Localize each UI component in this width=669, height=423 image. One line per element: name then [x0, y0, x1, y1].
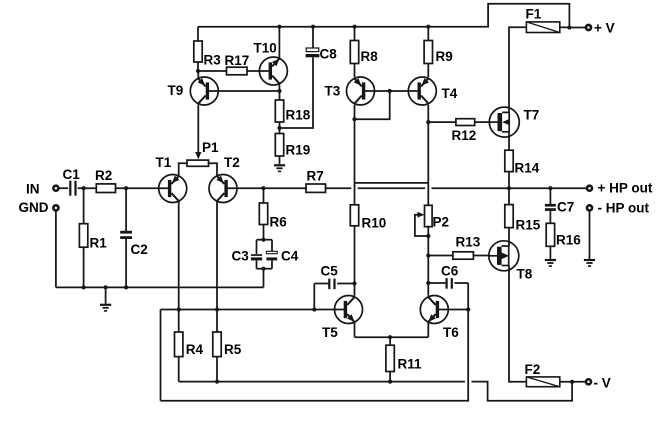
svg-text:GND: GND	[19, 200, 49, 215]
svg-text:R8: R8	[361, 49, 379, 64]
svg-text:R5: R5	[224, 342, 242, 357]
svg-text:T1: T1	[156, 155, 172, 170]
svg-text:R6: R6	[270, 215, 288, 230]
svg-text:T7: T7	[524, 108, 540, 123]
svg-text:C7: C7	[557, 200, 574, 215]
svg-text:R19: R19	[286, 143, 311, 158]
svg-text:C8: C8	[320, 47, 338, 62]
svg-text:R10: R10	[362, 216, 387, 231]
svg-text:R18: R18	[286, 108, 311, 123]
svg-text:R17: R17	[225, 53, 250, 68]
svg-text:C5: C5	[321, 264, 339, 279]
svg-text:R13: R13	[456, 235, 481, 250]
svg-text:R15: R15	[516, 218, 541, 233]
svg-text:T6: T6	[443, 325, 459, 340]
svg-text:F2: F2	[525, 362, 541, 377]
svg-text:C2: C2	[131, 242, 148, 257]
svg-text:T2: T2	[224, 155, 240, 170]
svg-text:+ HP out: + HP out	[598, 181, 653, 196]
svg-text:F1: F1	[526, 7, 542, 22]
svg-text:R2: R2	[95, 168, 112, 183]
svg-text:T10: T10	[254, 41, 277, 56]
svg-text:IN: IN	[26, 182, 40, 197]
svg-text:R3: R3	[204, 53, 222, 68]
svg-text:P2: P2	[433, 215, 450, 230]
svg-text:C4: C4	[281, 249, 299, 264]
svg-text:T5: T5	[322, 325, 338, 340]
svg-text:R1: R1	[90, 236, 108, 251]
svg-text:R16: R16	[556, 233, 581, 248]
svg-text:R11: R11	[398, 357, 423, 372]
svg-text:T9: T9	[168, 83, 184, 98]
svg-text:R4: R4	[186, 342, 204, 357]
svg-text:R9: R9	[436, 49, 453, 64]
svg-text:R7: R7	[307, 169, 324, 184]
svg-text:P1: P1	[202, 140, 219, 155]
svg-text:+ V: + V	[594, 21, 615, 36]
svg-text:R14: R14	[515, 161, 540, 176]
svg-text:- V: - V	[594, 376, 611, 391]
svg-text:C3: C3	[232, 249, 250, 264]
svg-text:C1: C1	[63, 167, 81, 182]
svg-text:T8: T8	[517, 267, 533, 282]
svg-text:T3: T3	[325, 84, 341, 99]
svg-text:C6: C6	[441, 264, 459, 279]
svg-text:R12: R12	[452, 128, 477, 143]
svg-text:- HP out: - HP out	[598, 201, 650, 216]
svg-text:T4: T4	[442, 86, 458, 101]
